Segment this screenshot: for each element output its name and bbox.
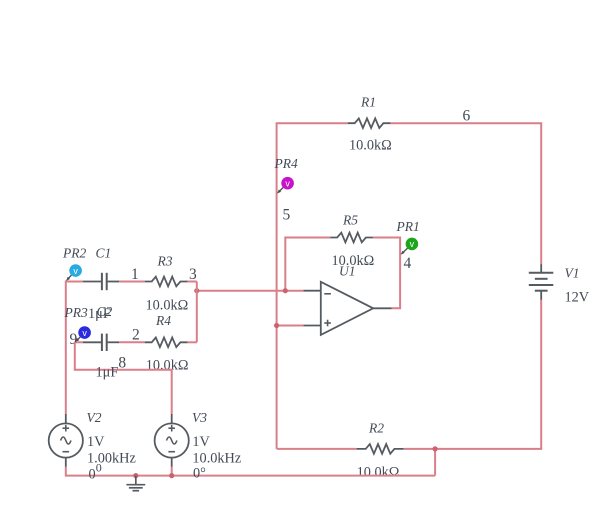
resistor R4 xyxy=(145,338,188,348)
svg-text:4: 4 xyxy=(404,255,412,272)
wire top rail right xyxy=(390,123,541,264)
battery V1 xyxy=(529,264,554,300)
svg-text:1μF: 1μF xyxy=(96,365,119,381)
junction dot ground tee xyxy=(133,473,138,478)
junction dot node 3 branch xyxy=(194,288,199,293)
junction dot R5 loop xyxy=(283,288,288,293)
svg-text:V2: V2 xyxy=(87,410,102,425)
svg-text:v: v xyxy=(285,178,290,188)
svg-text:PR2: PR2 xyxy=(62,246,86,261)
svg-text:12V: 12V xyxy=(565,290,590,306)
svg-text:9: 9 xyxy=(70,331,78,348)
wire row2 corner xyxy=(75,341,83,343)
probe PR1 xyxy=(401,238,419,255)
wire R5 feedback loop left xyxy=(285,238,330,291)
wire node 3 vertical xyxy=(196,282,198,343)
svg-text:10.0kΩ: 10.0kΩ xyxy=(146,297,189,313)
probe PR4 xyxy=(277,177,294,194)
svg-text:v: v xyxy=(410,239,415,249)
svg-text:10.0kHz: 10.0kHz xyxy=(192,450,241,466)
wire battery bottom to R2 xyxy=(403,300,541,449)
svg-text:10.0kΩ: 10.0kΩ xyxy=(357,465,400,481)
wire non-inverting input xyxy=(277,325,304,327)
svg-text:10.0kΩ: 10.0kΩ xyxy=(349,137,392,153)
wire top rail left + main vertical xyxy=(277,123,348,449)
resistor R1 xyxy=(348,118,391,128)
probe PR3 xyxy=(75,326,91,342)
svg-text:1: 1 xyxy=(131,266,139,283)
wire R2 left segment xyxy=(277,448,357,450)
wire R5 right to output xyxy=(373,238,400,309)
junction dot V3 bottom xyxy=(169,473,174,478)
svg-text:R3: R3 xyxy=(157,254,173,269)
svg-text:R5: R5 xyxy=(342,213,358,228)
svg-text:PR3: PR3 xyxy=(64,305,88,320)
probe PR2 xyxy=(66,264,82,281)
resistor R2 xyxy=(357,444,404,454)
wire node 8 run to V3 xyxy=(75,342,172,414)
svg-text:R4: R4 xyxy=(155,313,171,328)
svg-text:V3: V3 xyxy=(192,410,207,425)
wire R4 to node 3 vertical xyxy=(187,341,197,343)
svg-text:PR4: PR4 xyxy=(274,156,298,171)
svg-text:C1: C1 xyxy=(96,246,112,261)
wire V2 bottom stub xyxy=(65,467,67,477)
wire R3 to node 3 xyxy=(187,281,197,283)
svg-text:10.0kΩ: 10.0kΩ xyxy=(146,357,189,373)
resistor R3 xyxy=(145,277,188,287)
svg-text:R2: R2 xyxy=(368,421,384,436)
wire C1 to R3 xyxy=(119,281,145,283)
svg-text:v: v xyxy=(82,328,87,338)
svg-text:C2: C2 xyxy=(97,304,113,319)
wire V3 bottom stub xyxy=(171,467,173,477)
junction dot R2/battery/ground xyxy=(433,446,438,451)
svg-text:2: 2 xyxy=(132,327,140,344)
wire ground rail xyxy=(66,475,435,477)
ground xyxy=(126,476,145,491)
svg-text:PR1: PR1 xyxy=(396,219,420,234)
svg-text:1V: 1V xyxy=(192,434,210,450)
source V3 xyxy=(155,414,189,467)
svg-text:R1: R1 xyxy=(360,95,376,110)
svg-text:6: 6 xyxy=(463,108,471,125)
svg-text:3: 3 xyxy=(189,266,197,283)
wire C2 to R4 xyxy=(119,341,145,343)
wire row1 corner and V2 riser xyxy=(66,282,83,414)
svg-text:V1: V1 xyxy=(565,266,580,281)
svg-text:1V: 1V xyxy=(87,434,105,450)
op-amp U1 xyxy=(303,282,391,335)
svg-text:0: 0 xyxy=(89,467,96,483)
resistor R5 xyxy=(330,233,373,243)
svg-text:8: 8 xyxy=(118,354,126,371)
svg-text:0°: 0° xyxy=(193,466,206,482)
capacitor C2 xyxy=(83,334,119,351)
svg-text:1.00kHz: 1.00kHz xyxy=(87,450,136,466)
junction dot plus input xyxy=(274,323,279,328)
wire junction drop to ground rail xyxy=(434,449,436,476)
svg-text:v: v xyxy=(73,266,78,276)
svg-text:U1: U1 xyxy=(339,264,356,279)
svg-text:0: 0 xyxy=(96,460,102,474)
wire inverting input xyxy=(197,290,303,292)
capacitor C1 xyxy=(83,273,119,290)
source V2 xyxy=(49,414,83,467)
svg-text:5: 5 xyxy=(283,207,291,224)
